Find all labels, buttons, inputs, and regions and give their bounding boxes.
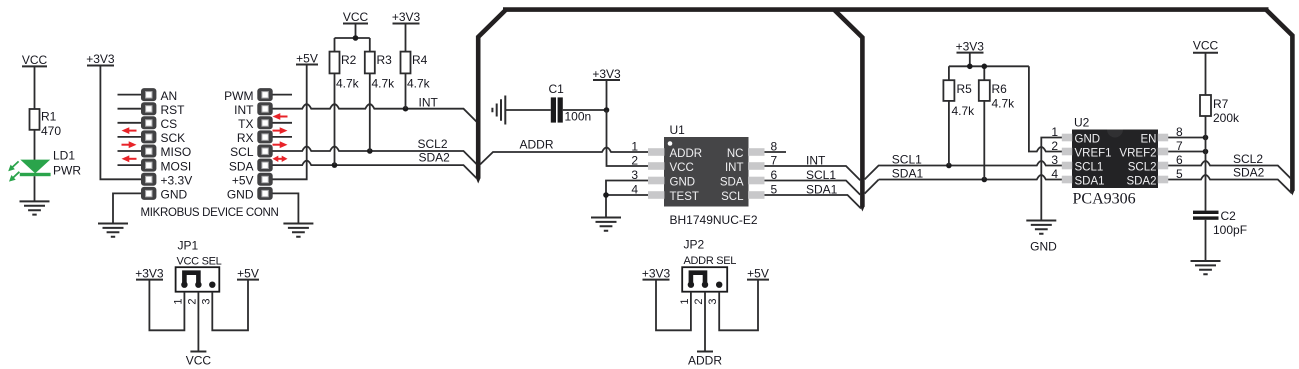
junction TEST-GND bbox=[603, 192, 609, 198]
resistor R4 bbox=[401, 52, 431, 91]
wire net SDA1 from bus to U2 pin 4 bbox=[879, 175, 1062, 180]
junction +3V3/C1 node bbox=[604, 107, 610, 113]
node +3V3 power flag (R5 R6) bbox=[956, 40, 985, 67]
bus middle branch bbox=[834, 10, 862, 207]
svg-text:R1: R1 bbox=[41, 110, 57, 124]
junction VCC node bbox=[353, 35, 359, 41]
svg-text:2: 2 bbox=[186, 298, 198, 304]
LED LD1 PWR bbox=[8, 149, 81, 182]
wire U1 SDA pin 6 to bus (net SCL1) bbox=[765, 181, 861, 195]
wire +3V3 rail to +3.3V pin bbox=[100, 66, 141, 180]
wire U2 SDA2 pin 5 to bus bbox=[1168, 175, 1292, 193]
wire +3V3 to R5 R6 and VREF1 bbox=[949, 66, 1029, 80]
svg-text:+5V: +5V bbox=[232, 174, 254, 188]
svg-text:4.7k: 4.7k bbox=[407, 77, 431, 91]
ground (C2) bbox=[1191, 261, 1221, 274]
svg-text:EN: EN bbox=[1141, 133, 1157, 145]
svg-text:SDA2: SDA2 bbox=[1233, 166, 1265, 180]
svg-text:470: 470 bbox=[41, 124, 61, 138]
node VCC power flag (R2 R3) bbox=[343, 10, 369, 24]
svg-text:4.7k: 4.7k bbox=[336, 77, 360, 91]
svg-text:JP1: JP1 bbox=[178, 239, 199, 253]
svg-text:U1: U1 bbox=[670, 123, 686, 137]
svg-text:3: 3 bbox=[707, 298, 719, 304]
node +5V power flag (mikrobus) bbox=[296, 52, 318, 66]
svg-text:R5: R5 bbox=[957, 82, 973, 96]
pin labels left header bbox=[161, 89, 193, 202]
wire RX stub bbox=[273, 136, 293, 138]
arrow SCL right bbox=[273, 141, 288, 148]
ground (U1) bbox=[591, 218, 621, 231]
node +5V power flag (JP1) bbox=[237, 267, 259, 281]
wire JP1 pin1 to +3V3 bbox=[149, 280, 184, 331]
junction R6 top bbox=[982, 64, 988, 70]
svg-text:VREF1: VREF1 bbox=[1075, 147, 1112, 159]
wire U1 GND pin 3 to ground bbox=[606, 181, 648, 218]
node +3V3 power flag (R4) bbox=[392, 10, 421, 24]
svg-text:2: 2 bbox=[1051, 139, 1058, 153]
svg-text:PWR: PWR bbox=[53, 164, 81, 178]
junction +3V3 stem bbox=[967, 64, 973, 70]
junction VREF2 bbox=[1203, 149, 1209, 155]
wire net SCL2 row with hops bbox=[273, 147, 477, 165]
arrow MOSI left bbox=[122, 155, 137, 162]
wire LD1 to ground bbox=[34, 176, 36, 201]
svg-text:+3.3V: +3.3V bbox=[161, 174, 193, 188]
ground (left header) bbox=[98, 224, 128, 237]
svg-text:+3V3: +3V3 bbox=[956, 40, 985, 54]
svg-text:INT: INT bbox=[234, 103, 254, 117]
svg-text:SCL: SCL bbox=[230, 145, 254, 159]
wire C1 to +3V3 node bbox=[563, 109, 607, 111]
wire JP1 pin3 to +5V bbox=[212, 280, 248, 331]
bus middle tip bbox=[860, 206, 865, 212]
connector CN1 right mikroBUS header bbox=[257, 88, 272, 200]
svg-text:TX: TX bbox=[238, 117, 253, 131]
connector CN1 left mikroBUS header bbox=[141, 88, 156, 200]
resistor R3 bbox=[365, 52, 395, 91]
junction R6-SDA1 bbox=[982, 177, 988, 183]
svg-text:VCC: VCC bbox=[1193, 39, 1219, 53]
svg-text:ADDR SEL: ADDR SEL bbox=[684, 255, 737, 267]
bus left segment bbox=[478, 10, 506, 179]
wire R1 to LD1 bbox=[34, 130, 36, 160]
wire U1 NC pin 8 stub bbox=[765, 151, 787, 153]
wire GND pin to ground (right header) bbox=[273, 193, 299, 223]
bus left tip bbox=[476, 178, 481, 184]
svg-text:ADDR: ADDR bbox=[520, 138, 554, 152]
svg-text:PWM: PWM bbox=[224, 89, 253, 103]
svg-text:NC: NC bbox=[727, 148, 744, 160]
svg-text:SDA: SDA bbox=[720, 176, 744, 188]
svg-text:+3V3: +3V3 bbox=[392, 10, 421, 24]
svg-text:U2: U2 bbox=[1074, 116, 1090, 130]
svg-text:SDA1: SDA1 bbox=[892, 167, 924, 181]
resistor R6 bbox=[979, 80, 1015, 110]
node VCC power flag (R7) bbox=[1193, 39, 1219, 96]
bus top horizontal bbox=[503, 7, 1269, 12]
svg-text:BH1749NUC-E2: BH1749NUC-E2 bbox=[670, 213, 758, 227]
wire R4 legs bbox=[405, 24, 407, 109]
svg-text:4: 4 bbox=[1051, 167, 1058, 181]
wire R6 leg bbox=[983, 101, 985, 180]
resistor R1 bbox=[30, 109, 62, 138]
junction EN-R7 bbox=[1203, 135, 1209, 141]
svg-text:+5V: +5V bbox=[747, 267, 769, 281]
svg-text:SCK: SCK bbox=[161, 131, 186, 145]
wire TX stub bbox=[273, 122, 293, 124]
svg-text:PCA9306: PCA9306 bbox=[1073, 191, 1136, 208]
junction R2-SDA2 bbox=[332, 162, 338, 168]
svg-text:100n: 100n bbox=[565, 110, 592, 124]
arrow TX left bbox=[273, 113, 288, 120]
svg-text:SCL2: SCL2 bbox=[1128, 161, 1157, 173]
wire GND pin to ground (left header) bbox=[113, 193, 141, 223]
svg-text:SDA2: SDA2 bbox=[419, 151, 451, 165]
wire U1 INT pin 7 to bus bbox=[765, 166, 861, 180]
svg-text:CS: CS bbox=[161, 117, 178, 131]
svg-text:1: 1 bbox=[679, 298, 691, 304]
ground (LED) bbox=[20, 201, 50, 214]
svg-text:SCL2: SCL2 bbox=[1233, 152, 1263, 166]
svg-text:VCC: VCC bbox=[670, 162, 694, 174]
wire R2 leg bbox=[334, 73, 336, 165]
wire U2 SCL2 pin 6 to bus bbox=[1168, 161, 1291, 179]
wire VCC to R2 R3 tops bbox=[335, 24, 370, 52]
svg-text:4: 4 bbox=[631, 183, 638, 197]
node +3V3 power flag (mikrobus) bbox=[86, 52, 115, 66]
svg-text:3: 3 bbox=[1051, 153, 1058, 167]
wire net SCL1 from bus to U2 pin 3 bbox=[865, 161, 1062, 194]
bus right tip bbox=[1290, 190, 1295, 196]
IC U1 BH1749NUC-E2 bbox=[631, 123, 777, 227]
arrow RX right bbox=[273, 127, 288, 134]
svg-text:+3V3: +3V3 bbox=[86, 52, 115, 66]
wire U2 VREF2 pin 7 bbox=[1168, 151, 1205, 153]
svg-text:SDA1: SDA1 bbox=[806, 183, 838, 197]
svg-text:C1: C1 bbox=[549, 82, 565, 96]
wire JP1 pin2 to VCC bbox=[197, 292, 199, 352]
svg-text:MIKROBUS DEVICE CONN: MIKROBUS DEVICE CONN bbox=[141, 207, 279, 219]
svg-text:4.7k: 4.7k bbox=[372, 77, 396, 91]
svg-text:GND: GND bbox=[227, 188, 254, 202]
junction R4-INT bbox=[403, 106, 409, 112]
svg-text:INT: INT bbox=[725, 162, 744, 174]
svg-text:VCC SEL: VCC SEL bbox=[177, 256, 222, 268]
wire PWM stub bbox=[273, 94, 293, 96]
svg-text:200k: 200k bbox=[1213, 111, 1240, 125]
svg-text:VCC: VCC bbox=[186, 354, 212, 368]
svg-text:MOSI: MOSI bbox=[161, 159, 192, 173]
node ADDR power flag (JP2 bottom) bbox=[688, 352, 722, 368]
node +3V3 power flag (JP2) bbox=[642, 267, 671, 281]
svg-text:GND: GND bbox=[161, 188, 188, 202]
svg-text:SDA2: SDA2 bbox=[1126, 175, 1156, 187]
wire net ADDR from bus to U1 pin 1 bbox=[480, 148, 648, 165]
arrow SDA bidirectional bbox=[273, 156, 288, 162]
svg-text:GND: GND bbox=[670, 176, 696, 188]
bus right segment bbox=[1266, 10, 1292, 191]
ground (U2) bbox=[1026, 221, 1056, 234]
svg-text:MISO: MISO bbox=[161, 145, 192, 159]
svg-text:VREF2: VREF2 bbox=[1119, 147, 1156, 159]
svg-text:4.7k: 4.7k bbox=[992, 97, 1016, 111]
svg-text:3: 3 bbox=[200, 298, 212, 304]
svg-text:RST: RST bbox=[161, 103, 186, 117]
svg-text:+5V: +5V bbox=[237, 267, 259, 281]
wire +5V rail to +5V pin bbox=[273, 65, 307, 180]
svg-text:INT: INT bbox=[419, 96, 439, 110]
ground (C1, rotated) bbox=[492, 96, 505, 125]
svg-text:R2: R2 bbox=[341, 53, 357, 67]
wire R7 leg to C2 bbox=[1205, 116, 1207, 211]
junction R5-SCL1 bbox=[946, 163, 952, 169]
svg-text:+5V: +5V bbox=[296, 52, 318, 66]
arrow MISO right bbox=[122, 141, 137, 148]
svg-text:R6: R6 bbox=[992, 82, 1008, 96]
node +5V power flag (JP2) bbox=[747, 267, 769, 281]
ground (right header) bbox=[283, 224, 313, 237]
svg-text:RX: RX bbox=[237, 131, 254, 145]
svg-text:ADDR: ADDR bbox=[670, 148, 703, 160]
svg-text:SCL: SCL bbox=[721, 191, 744, 203]
svg-text:VCC: VCC bbox=[343, 10, 369, 24]
resistor R2 bbox=[330, 52, 360, 91]
wire ground to C1 bbox=[505, 109, 551, 111]
svg-text:ADDR: ADDR bbox=[688, 354, 722, 368]
svg-text:2: 2 bbox=[631, 154, 638, 168]
wire net INT row with hops bbox=[273, 104, 477, 122]
svg-text:SDA1: SDA1 bbox=[1075, 175, 1105, 187]
resistor R7 200k bbox=[1200, 95, 1240, 125]
svg-text:R7: R7 bbox=[1213, 97, 1229, 111]
wire U2 GND pin 1 to ground bbox=[1041, 138, 1062, 221]
wire VCC to R1 bbox=[34, 66, 36, 109]
wire U2 EN pin 8 to R7 bbox=[1168, 137, 1205, 139]
svg-text:SCL2: SCL2 bbox=[418, 137, 448, 151]
svg-text:3: 3 bbox=[631, 168, 638, 182]
resistor R5 bbox=[943, 80, 975, 118]
wire JP2 pin3 to +5V bbox=[719, 280, 758, 331]
wire U1 SCL pin 5 to bus (net SDA1) bbox=[765, 195, 862, 209]
node VCC power flag (JP1 bottom) bbox=[186, 352, 212, 368]
svg-text:SCL1: SCL1 bbox=[892, 153, 922, 167]
capacitor C1 100n bbox=[549, 82, 592, 124]
svg-text:R3: R3 bbox=[377, 53, 393, 67]
svg-text:SDA: SDA bbox=[229, 159, 254, 173]
svg-text:+3V3: +3V3 bbox=[642, 267, 671, 281]
wire JP2 pin1 to +3V3 bbox=[656, 280, 691, 331]
node VCC power flag (LED branch) bbox=[22, 53, 48, 67]
svg-text:1: 1 bbox=[172, 298, 184, 304]
svg-text:100pF: 100pF bbox=[1213, 223, 1247, 237]
svg-text:+3V3: +3V3 bbox=[592, 67, 621, 81]
pin labels right header bbox=[224, 89, 254, 202]
svg-text:R4: R4 bbox=[412, 53, 428, 67]
svg-text:C2: C2 bbox=[1221, 209, 1237, 223]
svg-text:SCL1: SCL1 bbox=[806, 168, 836, 182]
jumper JP1 VCC SEL bbox=[172, 239, 221, 305]
junction R3-SCL2 bbox=[367, 148, 373, 154]
wire R5 leg bbox=[948, 101, 950, 166]
wire stubs left header bbox=[118, 95, 142, 166]
svg-text:VCC: VCC bbox=[22, 53, 48, 67]
wire VREF1 vertical to U2 pin 2 bbox=[1029, 66, 1062, 151]
wire C2 to ground bbox=[1205, 220, 1207, 261]
wire U1 TEST pin 4 bbox=[606, 194, 648, 196]
svg-text:INT: INT bbox=[806, 154, 826, 168]
svg-text:1: 1 bbox=[1051, 125, 1058, 139]
arrow SCK left bbox=[122, 127, 137, 134]
node +3V3 power flag (JP1) bbox=[135, 267, 164, 281]
svg-text:AN: AN bbox=[161, 89, 178, 103]
svg-text:4.7k: 4.7k bbox=[952, 104, 976, 118]
svg-text:JP2: JP2 bbox=[684, 238, 705, 252]
svg-text:SCL1: SCL1 bbox=[1075, 161, 1104, 173]
svg-text:2: 2 bbox=[693, 298, 705, 304]
capacitor C2 100pF bbox=[1193, 209, 1247, 237]
wire net SDA2 row with hop bbox=[273, 161, 477, 179]
node +3V3 power flag (U1) bbox=[592, 67, 621, 110]
svg-text:GND: GND bbox=[1030, 240, 1057, 254]
IC U2 PCA9306 bbox=[1051, 116, 1183, 208]
svg-text:GND: GND bbox=[1075, 133, 1101, 145]
svg-text:LD1: LD1 bbox=[53, 149, 75, 163]
wire JP2 pin2 to ADDR bbox=[704, 292, 706, 352]
svg-text:1: 1 bbox=[631, 140, 638, 154]
svg-text:+3V3: +3V3 bbox=[135, 267, 164, 281]
wire +3V3 node to U1 VCC pin 2 bbox=[607, 110, 649, 166]
svg-text:TEST: TEST bbox=[670, 191, 699, 203]
jumper JP2 ADDR SEL bbox=[679, 238, 736, 305]
wire R3 leg bbox=[369, 73, 371, 151]
